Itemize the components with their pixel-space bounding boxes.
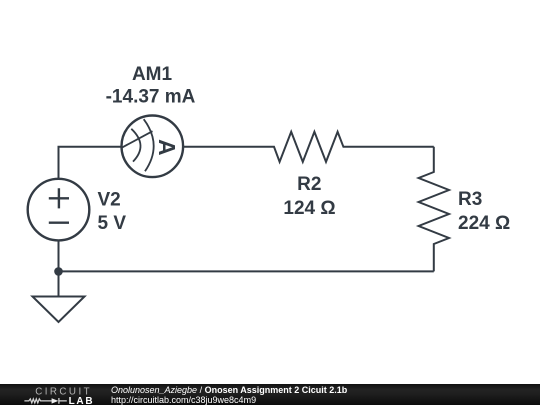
svg-text:V2: V2 bbox=[98, 190, 121, 211]
svg-text:-14.37 mA: -14.37 mA bbox=[106, 86, 196, 107]
svg-text:R3: R3 bbox=[458, 189, 482, 210]
svg-text:AM1: AM1 bbox=[132, 64, 173, 85]
svg-text:224 Ω: 224 Ω bbox=[458, 213, 510, 234]
svg-text:5 V: 5 V bbox=[98, 213, 127, 234]
svg-text:LAB: LAB bbox=[69, 396, 95, 405]
svg-text:A: A bbox=[154, 139, 180, 156]
svg-text:R2: R2 bbox=[297, 174, 321, 195]
svg-text:124 Ω: 124 Ω bbox=[283, 198, 335, 219]
